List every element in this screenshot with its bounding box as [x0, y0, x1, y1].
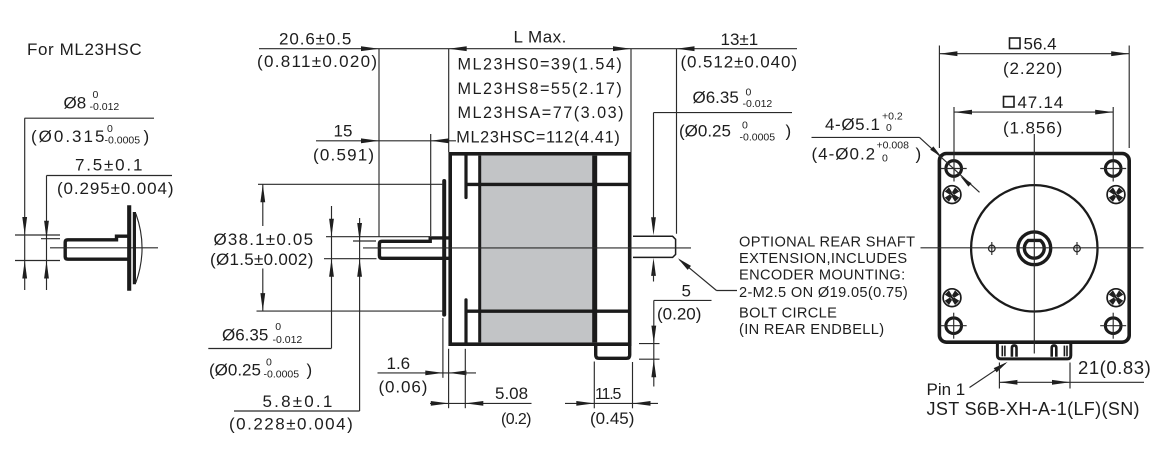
arrow 47.14 right — [1095, 110, 1113, 115]
ext line 47.14 right — [1112, 107, 1114, 182]
extension line top dia8 — [15, 234, 60, 236]
svg-text:(IN REAR ENDBELL): (IN REAR ENDBELL) — [739, 322, 884, 338]
dim line dia38.1 upper — [262, 184, 264, 226]
svg-text:(1.856): (1.856) — [1003, 118, 1063, 137]
extension line front face — [448, 49, 450, 152]
ext line flat top — [353, 240, 376, 242]
svg-text:0: 0 — [266, 357, 272, 369]
connector pin hook right — [1052, 345, 1057, 356]
arrow dia8 down — [22, 217, 27, 235]
shaft outline left view — [65, 236, 130, 259]
shaft circle with flat — [1024, 240, 1044, 258]
screw top-left — [943, 186, 961, 204]
dim line vertical dia8 — [24, 118, 26, 290]
svg-text:-0.012: -0.012 — [743, 98, 773, 110]
dim line 1.6 — [378, 372, 477, 374]
svg-text:JST S6B-XH-A-1(LF)(SN): JST S6B-XH-A-1(LF)(SN) — [927, 399, 1140, 419]
ext line boss thickness left — [442, 318, 444, 378]
dim line 15 — [316, 140, 456, 142]
arrow 7.5 down — [44, 221, 49, 239]
svg-text:5: 5 — [682, 282, 691, 301]
svg-text:0: 0 — [107, 123, 113, 135]
svg-text:ML23HS8=55(2.17): ML23HS8=55(2.17) — [458, 80, 624, 98]
leader rear dia lower stub — [653, 271, 655, 282]
arrow rear dia down — [651, 217, 656, 235]
arrow hole lower — [960, 176, 971, 186]
label 4-dia5.1 — [825, 111, 903, 135]
arrow pin1 — [994, 362, 1008, 373]
svg-text:(0.20): (0.20) — [657, 305, 701, 324]
svg-text:(0.512±0.040): (0.512±0.040) — [681, 53, 798, 72]
extension line flat 7.5 — [41, 238, 60, 240]
svg-text:Pin 1: Pin 1 — [927, 380, 966, 399]
label rear dia 6.35 — [693, 87, 773, 111]
dim line 56.4 — [939, 53, 1129, 55]
svg-text:(0.45): (0.45) — [590, 409, 634, 428]
ext line 11.5 right — [632, 362, 634, 408]
screw bottom-right — [1107, 289, 1125, 307]
underline 4-dia5.1 — [812, 136, 920, 138]
dim underline 7.5 — [47, 175, 173, 177]
arrow at body front face — [449, 46, 467, 51]
svg-text:4-Ø5.1: 4-Ø5.1 — [825, 115, 881, 134]
middle centerline — [363, 247, 691, 249]
svg-text:0: 0 — [275, 321, 281, 333]
svg-text:Ø6.35: Ø6.35 — [222, 326, 268, 345]
arrow 5 down — [651, 326, 656, 344]
corner hole top-right — [1100, 161, 1126, 177]
connector tab side view — [596, 344, 630, 358]
arrow 5.8 up — [357, 259, 362, 277]
ext line 5 bottom — [639, 358, 660, 360]
rear shaft outline — [633, 236, 676, 257]
vertical centerline front view — [1033, 134, 1035, 354]
arrow 56.4 right — [1111, 51, 1129, 56]
svg-text:+0.2: +0.2 — [882, 111, 903, 123]
arrow at rear shaft end — [677, 46, 695, 51]
svg-text:EXTENSION,INCLUDES: EXTENSION,INCLUDES — [739, 251, 907, 267]
underline rear dia6.35 — [654, 112, 793, 114]
ext line 56.4 left — [938, 46, 940, 149]
front plate upper line — [464, 156, 467, 198]
svg-text:(4-Ø0.2: (4-Ø0.2 — [812, 144, 877, 163]
connector front view outline — [997, 344, 1070, 359]
svg-text:+0.008: +0.008 — [877, 139, 910, 151]
pilot circle — [971, 185, 1097, 311]
svg-text:15: 15 — [334, 121, 353, 140]
svg-text:(0.228±0.004): (0.228±0.004) — [229, 415, 354, 434]
screw bottom-left — [943, 289, 961, 307]
connector pin line 4 — [1066, 346, 1068, 357]
svg-text:5.08: 5.08 — [495, 384, 528, 403]
svg-text:1.6: 1.6 — [387, 354, 411, 373]
svg-text:-0.012: -0.012 — [273, 334, 303, 346]
corner hole top-left — [941, 161, 967, 177]
label front dia6.35 — [222, 321, 302, 346]
arrow 11.5 left — [576, 401, 594, 406]
ext line 11.5 left — [593, 362, 595, 409]
underline 5.8 — [234, 410, 360, 412]
svg-text:0: 0 — [746, 87, 752, 99]
encoder hole right — [1074, 242, 1081, 255]
leader note diagonal — [680, 260, 717, 291]
svg-text:5.8±0.1: 5.8±0.1 — [263, 392, 335, 411]
arrow 21 right — [1052, 380, 1070, 385]
square symbol 56.4 — [1010, 38, 1021, 49]
arrow 1.6 left — [425, 371, 443, 376]
ext line boss top — [258, 183, 443, 185]
arrow 11.5 right — [633, 401, 651, 406]
front bell dome arc — [136, 214, 142, 283]
arrow 56.4 left — [939, 51, 957, 56]
faceplate square — [939, 154, 1129, 343]
screw top-right — [1107, 186, 1125, 204]
extension line rear shaft end — [676, 49, 678, 234]
arrow 5.08 right — [465, 401, 483, 406]
svg-text:ML23HSC=112(4.41): ML23HSC=112(4.41) — [456, 129, 620, 147]
ext line 5.08 right — [464, 349, 466, 408]
stator gray fill — [480, 156, 595, 343]
stator left boundary — [478, 156, 481, 343]
svg-text:L Max.: L Max. — [514, 28, 567, 47]
square symbol 47.14 — [1004, 97, 1015, 108]
front shaft outline — [379, 238, 450, 258]
svg-text:OPTIONAL REAR SHAFT: OPTIONAL REAR SHAFT — [739, 234, 915, 250]
dim line 5 vertical — [653, 300, 655, 386]
dim line 5.8 — [359, 218, 361, 411]
dim line 47.14 — [954, 111, 1113, 113]
ext line shaft bottom — [324, 258, 377, 260]
arrow dia38.1 down — [260, 293, 265, 311]
svg-text:ML23HS0=39(1.54): ML23HS0=39(1.54) — [458, 56, 624, 74]
arrow 5 up — [651, 359, 656, 377]
svg-text:-0.0005: -0.0005 — [105, 135, 141, 147]
label rear (dia 0.25) — [679, 120, 791, 144]
shaft centerline left view — [50, 247, 158, 249]
extension line shaft end — [378, 49, 380, 237]
svg-text:(0.811±0.020): (0.811±0.020) — [257, 52, 378, 71]
dim line front dia6.35 — [331, 206, 333, 348]
pilot boss line — [442, 181, 446, 315]
svg-text:(0.06): (0.06) — [379, 378, 429, 397]
dim underline dia8 — [25, 117, 155, 119]
arrow rear dia up — [651, 258, 656, 276]
arrow 15 right — [431, 138, 449, 143]
arrow 21 left — [999, 380, 1017, 385]
ext line 21 right — [1069, 363, 1071, 389]
svg-text:ENCODER MOUNTING:: ENCODER MOUNTING: — [739, 267, 905, 283]
svg-text:20.6±0.5: 20.6±0.5 — [279, 30, 352, 49]
svg-text:): ) — [307, 361, 313, 380]
svg-text:(0.295±0.004): (0.295±0.004) — [57, 179, 174, 198]
arrow at body rear face — [613, 46, 631, 51]
arrow front dia up — [329, 259, 334, 277]
svg-text:0: 0 — [742, 120, 748, 132]
svg-text:): ) — [916, 144, 922, 163]
label (dia 0.315) — [31, 123, 149, 147]
horizontal centerline front view — [921, 247, 1144, 249]
leader rear dia6.35 vertical — [653, 113, 655, 224]
connector pin hook left — [1012, 345, 1017, 356]
svg-text:(Ø0.25: (Ø0.25 — [209, 361, 261, 380]
svg-text:11.5: 11.5 — [595, 386, 621, 403]
label front (dia0.25) — [209, 357, 312, 381]
svg-text:For ML23HSC: For ML23HSC — [27, 40, 142, 59]
svg-text:(2.220): (2.220) — [1003, 59, 1063, 78]
front bell flange line — [127, 205, 131, 290]
svg-text:BOLT CIRCLE: BOLT CIRCLE — [739, 305, 837, 321]
underline 5 — [654, 299, 712, 301]
svg-text:ML23HSA=77(3.03): ML23HSA=77(3.03) — [458, 104, 626, 122]
ext line 47.14 left — [953, 107, 955, 182]
encoder hole left — [989, 242, 996, 255]
arrow front dia down — [329, 219, 334, 237]
dim line dia38.1 lower — [262, 269, 264, 312]
svg-text:Ø6.35: Ø6.35 — [693, 88, 739, 107]
motor body outline — [450, 154, 630, 344]
leader note horizontal — [717, 290, 738, 292]
svg-text:47.14: 47.14 — [1018, 93, 1065, 112]
svg-text:2-M2.5 ON Ø19.05(0.75): 2-M2.5 ON Ø19.05(0.75) — [739, 285, 908, 301]
svg-text:-0.0005: -0.0005 — [740, 132, 776, 144]
extension line rear face — [630, 49, 632, 152]
svg-text:): ) — [786, 122, 792, 141]
svg-text:-0.0005: -0.0005 — [264, 369, 300, 381]
svg-text:Ø8: Ø8 — [64, 94, 87, 113]
svg-text:(Ø1.5±0.002): (Ø1.5±0.002) — [210, 250, 314, 269]
ext line 5.08 left — [448, 349, 450, 408]
svg-text:(Ø0.25: (Ø0.25 — [679, 122, 731, 141]
svg-text:13±1: 13±1 — [721, 30, 759, 49]
leader 4-dia5.1 diagonal — [920, 137, 980, 192]
hub outer circle — [1018, 232, 1051, 265]
front plate lower line — [464, 300, 467, 343]
body chamfer line top — [466, 183, 628, 186]
svg-text:0: 0 — [93, 89, 99, 101]
svg-text:0: 0 — [882, 153, 888, 165]
arrow 20.6 left (at shaft end) — [361, 46, 379, 51]
connector pin line 3 — [1063, 346, 1065, 357]
svg-text:Ø38.1±0.05: Ø38.1±0.05 — [214, 230, 315, 249]
svg-text:(0.591): (0.591) — [313, 146, 375, 165]
ext line 21 left — [998, 363, 1000, 389]
connector pin line 2 — [1004, 346, 1006, 357]
corner hole bottom-right — [1100, 313, 1126, 339]
front bell inner line — [133, 212, 136, 284]
svg-text:56.4: 56.4 — [1024, 34, 1057, 53]
arrow note to rear shaft — [678, 258, 691, 270]
arrow dia38.1 up — [260, 184, 265, 202]
arrow 47.14 left — [954, 110, 972, 115]
leader pin1 — [970, 363, 1006, 387]
arrow 15 left — [361, 138, 379, 143]
svg-text:-0.012: -0.012 — [90, 101, 120, 113]
svg-text:(Ø0.315: (Ø0.315 — [31, 127, 106, 146]
dim line vertical 7.5 — [46, 176, 48, 291]
ext line step top — [326, 236, 430, 238]
svg-text:7.5±0.1: 7.5±0.1 — [75, 156, 144, 175]
corner hole bottom-left — [941, 313, 967, 339]
extension line shaft step — [430, 134, 432, 236]
connector pin line 1 — [1001, 346, 1003, 357]
ext line boss bottom — [257, 310, 444, 312]
svg-text:21(0.83): 21(0.83) — [1078, 357, 1151, 378]
top dimension line — [259, 48, 797, 50]
arrow 5.08 left — [431, 401, 449, 406]
dim line 5.08 — [430, 402, 532, 404]
arrow hole upper — [930, 146, 941, 156]
body chamfer line bottom — [466, 310, 628, 313]
svg-text:): ) — [144, 127, 150, 146]
dim line 21 — [999, 381, 1144, 383]
underline front dia6.35 — [208, 348, 331, 350]
ext line 5 top — [639, 343, 660, 345]
svg-text:0: 0 — [886, 122, 892, 134]
label (4-dia0.2) — [812, 139, 922, 164]
svg-text:(0.2): (0.2) — [501, 411, 531, 428]
arrow 1.6 right — [448, 371, 466, 376]
arrow 5.8 down — [357, 223, 362, 241]
arrow dia8 up — [22, 261, 27, 279]
dim line 11.5 — [565, 402, 658, 404]
extension line bottom — [15, 260, 60, 262]
ext line 56.4 right — [1128, 46, 1130, 149]
stator right boundary — [592, 156, 597, 343]
arrow 7.5 up — [44, 261, 49, 279]
label dia 8 with tolerance — [64, 89, 120, 113]
